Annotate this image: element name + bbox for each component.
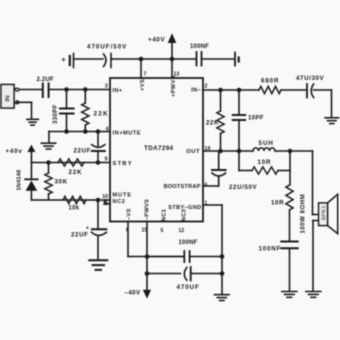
svg-text:100NF: 100NF [179,240,198,246]
svg-text:IN+: IN+ [113,88,123,94]
svg-text:22UF: 22UF [71,232,89,239]
svg-text:11: 11 [103,201,109,207]
capacitor C10 100NF zobel [259,242,298,292]
node [145,271,150,276]
svg-text:680R: 680R [261,78,279,85]
svg-text:5: 5 [161,228,164,234]
capacitor C1 2.2UF [37,77,54,97]
wire pin8 drop [128,222,183,257]
wire [281,89,306,91]
svg-text:5UH: 5UH [259,140,274,147]
resistor R4 10k [63,196,86,211]
pin 5 NC1 [161,209,168,234]
svg-text:1N4148: 1N4148 [17,170,23,191]
svg-text:SPK1: SPK1 [322,205,328,220]
wire [17,102,31,118]
capacitor C6 470UF/50V [87,44,127,68]
svg-text:100NF: 100NF [259,246,282,253]
pin 8 -VS [126,208,133,233]
svg-text:10R: 10R [258,159,272,166]
svg-text:STBY: STBY [113,161,133,167]
svg-text:IN+MUTE: IN+MUTE [113,131,142,137]
ground signal [41,143,56,149]
capacitor C4 22UF mute [71,200,107,260]
svg-text:100W 8OHM: 100W 8OHM [301,194,307,234]
wire signal-gnd row [49,131,110,133]
power -40V arrow [125,290,152,299]
capacitor C11 100NF [179,240,198,262]
node [237,88,242,93]
wire out row [203,150,253,152]
power +40v arrow left [6,145,36,163]
resistor R5 22K feedback [206,90,224,151]
node [237,149,242,154]
svg-text:10: 10 [102,194,108,200]
node [220,254,225,259]
node [96,160,101,165]
svg-text:IN: IN [5,95,12,102]
pin 13 +PWVS [171,72,179,98]
wire [202,58,234,60]
ground feedback [325,118,339,124]
resistor R6 680R [259,78,281,94]
node rail right terminal [235,53,239,66]
node input-330pf junction [64,87,69,92]
wire speaker top [313,151,319,215]
svg-text:–40V: –40V [125,290,142,297]
wire in- row [203,89,259,91]
svg-text:+40v: +40v [6,148,23,155]
node [145,254,150,259]
svg-text:2.2UF: 2.2UF [37,77,54,83]
wire [74,58,104,60]
svg-text:10R: 10R [271,200,284,207]
wire pin15 drop [146,222,148,291]
wire [147,256,222,258]
svg-text:9: 9 [105,157,108,163]
node [83,129,88,134]
svg-text:4: 4 [106,127,109,133]
svg-text:10PF: 10PF [248,116,264,122]
power +40V arrow [148,33,176,59]
node +40V arrow junction [170,57,175,62]
svg-text:+40V: +40V [148,37,165,44]
svg-text:10k: 10k [69,206,80,212]
svg-text:2: 2 [205,84,208,90]
op-amp U1 TDA7294 body [110,78,203,222]
svg-text:+: + [61,57,65,64]
node [288,149,293,154]
svg-text:–PWVS: –PWVS [145,199,151,220]
svg-text:22UF: 22UF [74,148,92,155]
pin 3 label [105,83,123,94]
ground input [27,119,38,125]
ground zobel [282,292,297,298]
svg-text:TDA7294: TDA7294 [144,145,174,152]
pin 7 +VS [140,72,147,92]
resistor R2 30K [45,163,68,201]
pin 9 label [105,157,133,168]
pin 12 NC3 [179,209,188,234]
svg-text:7: 7 [144,72,147,78]
ground main [215,295,230,301]
resistor R7 10R damping [239,151,290,174]
capacitor C9 22U/50V bootstrap [203,151,257,191]
svg-text:22K: 22K [206,120,219,127]
pin 1 label [168,201,207,212]
node [64,129,69,134]
diode D1 1N4148 [17,163,38,201]
connector J1 IN [1,85,19,109]
svg-text:NC2: NC2 [113,199,126,205]
wire [275,150,313,152]
svg-text:47U/30V: 47U/30V [296,75,325,82]
svg-text:22K: 22K [69,169,83,176]
speaker SPK1 [301,194,338,234]
wire [314,90,332,117]
svg-text:IN–: IN– [191,88,201,94]
node [96,129,101,134]
svg-text:12: 12 [179,228,185,234]
node [96,198,101,203]
wire [19,89,42,91]
pin 6 label [164,183,208,191]
node [218,149,223,154]
wire pin10-11 fork [105,200,110,204]
capacitor C7 10PF [233,90,264,151]
capacitor C12 470UF [177,267,223,291]
wire [48,132,50,143]
pin 10 11 labels [102,193,132,207]
svg-text:470UF/50V: 470UF/50V [87,44,127,51]
svg-text:22K: 22K [94,111,109,118]
svg-text:22U/50V: 22U/50V [229,185,257,191]
svg-text:NC1: NC1 [162,209,168,221]
resistor R1 22K [82,90,109,132]
wire speaker return [313,221,319,292]
wire 470uf row [147,273,181,275]
ground mute cap [89,260,107,270]
capacitor C8 47U/30V [296,75,325,98]
capacitor C2 330PF [53,90,74,132]
svg-text:470UF: 470UF [177,284,200,291]
inductor L1 5UH [253,140,275,151]
wire [49,89,110,91]
node input-22k junction [83,87,88,92]
capacitor C5 100NF [190,44,209,66]
node +40V junction pin7 [139,57,144,62]
pin 14 label [186,146,210,155]
ground speaker [306,292,321,298]
svg-text:330PF: 330PF [53,104,59,124]
capacitor C3 22UF pin4 [74,132,105,163]
wire pin13 drop [171,59,173,78]
svg-text:–VS: –VS [127,208,133,220]
pin 15 -PWVS [142,199,151,234]
svg-text:BOOTSTRAP: BOOTSTRAP [164,184,201,190]
pin 2 label [191,84,207,94]
svg-text:3: 3 [105,83,108,89]
wire mute row [31,199,105,201]
wire stby row [31,162,110,164]
node [220,271,225,276]
node +40V rail left terminal with + mark [61,54,73,68]
svg-text:+PWVS: +PWVS [171,75,177,97]
resistor R8 10R zobel [271,171,293,242]
svg-text:NC3: NC3 [182,209,188,221]
pin 4 label [106,127,141,137]
svg-text:100NF: 100NF [190,44,209,50]
wire [111,58,196,60]
svg-text:30K: 30K [55,179,68,186]
svg-text:OUT: OUT [186,149,200,155]
wire [140,59,142,78]
wire pin1 drop [203,205,222,294]
node [218,88,223,93]
svg-text:MUTE: MUTE [113,193,132,199]
node [46,160,51,165]
svg-text:+VS: +VS [140,79,146,91]
resistor R3 22K stby [58,159,84,176]
